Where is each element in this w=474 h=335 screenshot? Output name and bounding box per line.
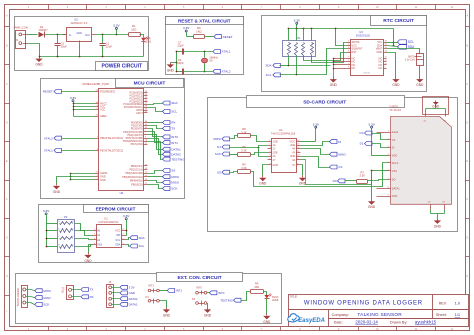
svg-text:4OE: 4OE [290,143,295,147]
svg-text:2020-02-14: 2020-02-14 [355,320,378,325]
svg-text:1KΩ: 1KΩ [196,29,202,33]
ground symbol power circuit [35,57,43,67]
net flag XTAL1 [213,50,231,54]
wire bootloader to flags [31,290,35,305]
capacitor C7 22pF [177,40,213,54]
wire mcu pin to SCL flag [148,108,163,112]
svg-text:Sheet:: Sheet: [436,313,447,317]
title block REV [439,300,461,305]
net flag SCK [163,186,179,190]
net flag MISO [163,180,180,184]
buffer chip U4 74LVC125APW [268,128,301,172]
svg-text:15Ω: 15Ω [254,285,259,289]
svg-text:SDA: SDA [139,236,145,240]
svg-text:SDA: SDA [171,101,178,105]
svg-text:1: 1 [72,245,73,247]
wire pullup3 to chip [304,53,347,61]
svg-text:Out: Out [85,33,90,37]
svg-text:1N4007: 1N4007 [38,28,48,32]
resistor R8 3.3K [230,127,251,138]
svg-text:VCC: VCC [100,108,106,112]
svg-text:SCL: SCL [139,244,145,248]
svg-text:INT1: INT1 [176,289,183,293]
svg-text:INT0: INT0 [218,291,225,295]
svg-text:VSS: VSS [97,242,102,246]
wire pullup4 to chip 32khz [312,43,347,63]
net flag MOSI ext [35,289,51,293]
ground symbol U4 left [259,176,267,186]
svg-text:TX: TX [90,288,94,292]
ground symbol U4 right [299,176,307,186]
wire left rail xtal caps [171,51,178,73]
svg-text:CS: CS [392,138,396,142]
resistor R6 1K [194,26,205,38]
wire CS to card pin2 [372,134,388,140]
svg-text:3.3K: 3.3K [241,148,247,152]
net flag MOSI [163,175,180,179]
svg-text:2A: 2A [273,154,276,158]
svg-text:4Y: 4Y [292,150,295,154]
wire R6 to RESET flag [205,36,214,38]
svg-text:DATA2: DATA2 [129,297,138,301]
wire card VSS junction to ground [371,170,388,199]
wire D1 to U2 In [45,34,67,36]
svg-text:CDN: CDN [392,194,398,198]
svg-text:GND: GND [434,224,442,228]
net flag RX [163,121,176,125]
capacitor C1 22uF [100,35,113,57]
wires network to U1 pins [75,224,93,247]
svg-text:ATMEGA328P_TQFP: ATMEGA328P_TQFP [82,82,109,86]
resistor R9 15ohm [251,282,264,294]
svg-text:H: H [6,275,8,278]
net flag RX ext [81,295,94,299]
svg-text:1OE: 1OE [273,139,278,143]
wire U4 4A to MISO flag [301,149,330,155]
diode D1 1N4007 [38,25,48,38]
svg-text:DO: DO [392,178,396,182]
capacitor C2 10uF [55,35,68,57]
svg-text:TF-15+15: TF-15+15 [389,108,401,112]
svg-text:VDD: VDD [392,154,398,158]
net flag TESTING [163,157,186,161]
svg-text:CAT24C02WI-G: CAT24C02WI-G [98,220,118,224]
title block Sheet [436,312,461,317]
svg-text:MOSI: MOSI [213,137,221,141]
wire SCL pin to SDA flag [126,238,130,240]
svg-text:SS: SS [217,170,221,174]
svg-text:2OE: 2OE [273,150,278,154]
svg-text:GND: GND [84,259,92,263]
ground symbol mcu [53,184,61,194]
svg-text:D: D [6,121,8,124]
svg-text:3.3V: 3.3V [294,18,301,22]
wire R8 to U4 1OE [251,136,268,142]
svg-text:GND: GND [416,83,424,87]
wire U4 3OE to CS flag [301,157,330,168]
svg-text:DATA1: DATA1 [171,147,181,151]
wire K3 to gnd [207,304,208,308]
svg-text:2Y: 2Y [273,158,276,162]
net flag INT0 [163,135,179,139]
wire GND pin 13 down [387,53,396,77]
svg-text:DS3231SO: DS3231SO [356,34,371,38]
rtc NC tie wires to gnd [333,58,347,77]
wire SDA pin to SCL flag [126,245,130,247]
svg-text:D1: D1 [360,142,364,146]
MCU section box [41,79,185,199]
net flag SDA eeprom [130,236,145,240]
svg-text:PB7(XTAL2/TOSC2): PB7(XTAL2/TOSC2) [100,148,123,152]
capacitor C6 22pF [177,58,213,75]
power flag 3.3V reset [183,26,190,36]
svg-text:ayushkh15: ayushkh15 [415,320,437,325]
svg-text:GND: GND [432,105,440,109]
ground symbol battery [416,77,424,87]
wire LED1 to ground rail [143,42,145,57]
net flag DI sd mid [330,140,342,144]
svg-text:U6: U6 [120,191,124,195]
svg-text:H: H [466,275,468,278]
svg-text:GND: GND [100,178,106,182]
wire LED8 to gnd [266,299,268,314]
RESET and XTAL section box [166,17,244,75]
svg-text:TX: TX [171,127,175,131]
wire SS resistor to bottom bus [251,163,388,187]
ground symbol card shield bottom [434,219,442,229]
wire X1 pin1 to D1 [28,34,38,36]
connector J1 BOOTLOADER [16,286,31,308]
power flag 3.3V eeprom right [123,214,130,236]
svg-text:P1: P1 [297,36,301,40]
wire mcu pin to RX flag [148,122,163,124]
svg-text:3.3K: 3.3K [241,166,247,170]
net flag SCK sd [215,145,251,156]
net flag XTAL2 [213,69,231,73]
svg-text:C: C [6,83,8,86]
svg-text:PB0(ICP1): PB0(ICP1) [131,164,143,168]
wire SCK resistor to U4 [251,153,268,155]
ground symbol xtal [167,63,175,73]
card top shield gnd box [423,97,449,115]
svg-text:3A: 3A [292,158,295,162]
wire mcu pin to SS flag [148,171,163,174]
svg-text:Drawn By:: Drawn By: [390,321,408,325]
title block frame [289,295,469,327]
power flag 3.3V card [368,122,387,155]
ground symbol K3 [204,308,212,318]
wire mcu pin to DATA2 flag [148,139,163,155]
svg-text:Company:: Company: [332,313,349,317]
wire card bottom shield to gnd [431,210,445,219]
EXT CON section box [16,273,282,324]
svg-text:SCK: SCK [215,152,221,156]
net flag TX [163,126,176,130]
net flag CS card [359,131,372,135]
svg-text:3Y: 3Y [292,163,295,167]
svg-text:1A: 1A [273,143,276,147]
rtc chip U3 DS3231SO [347,30,388,75]
svg-text:EXT. CON. CIRCUIT: EXT. CON. CIRCUIT [177,275,221,281]
wire bus U4 right to card VSS [301,160,372,185]
mcu chip U6 ATMEGA328P_TQFP [82,82,148,195]
wire DI to U4 [230,146,268,157]
wire mcu pin to TX flag [148,126,163,129]
svg-text:AMS1117-3.3: AMS1117-3.3 [71,21,88,25]
eeprom chip U1 CAT24C02WI-G [93,217,126,248]
ground symbol rtc left [330,77,338,87]
net flag DATA2 ext [120,297,138,301]
wire battery to gnd [419,66,421,77]
wire R7 to card DO pin [368,180,388,181]
svg-text:GND: GND [204,313,212,317]
net flag DATA2 [163,152,181,156]
resistor R1 15ohm [129,24,141,36]
wire U4 3Y to ground right [301,165,303,176]
svg-text:2: 2 [72,236,73,238]
svg-text:DATA2: DATA2 [171,152,181,156]
svg-text:TALKING SENSOR: TALKING SENSOR [357,312,402,318]
svg-text:VCC: VCC [290,139,296,143]
net flag SCL eeprom [130,244,145,248]
wire D1 to card pin3 [372,144,388,148]
push button K3 INT0 [192,286,207,306]
svg-text:3.3K: 3.3K [359,174,365,178]
svg-text:3.3K: 3.3K [241,130,247,134]
sd card connector CARD1 TF-15+15 [388,104,452,209]
net flag SDA rtc right [398,45,416,49]
wire K4 to INT1 flag [160,290,168,292]
wire mcu pin to DATA1 flag [148,135,163,150]
net flag SS sd [217,163,251,175]
svg-text:3: 3 [72,229,73,231]
net flag SS [163,169,176,173]
wire mcu pin to INT0 flag [148,129,163,137]
svg-text:D: D [466,121,468,124]
svg-text:GND: GND [129,291,135,295]
wire 3.3V to AVCC VCC pins [73,103,95,111]
svg-text:MISO: MISO [171,181,180,185]
svg-text:SDA: SDA [265,64,271,68]
svg-text:GND: GND [330,83,338,87]
wire XTAL2 to pin7 [62,138,95,140]
svg-text:PB6(XTAL1/TOSC1): PB6(XTAL1/TOSC1) [100,136,123,140]
net flag TESTING ext [220,298,241,302]
EEPROM section box [39,205,149,263]
svg-text:SCL: SCL [408,40,414,44]
wire mcu pin to INT1 flag [148,132,163,143]
svg-text:CS: CS [338,165,342,169]
wire mcu pin to MOSI flag [148,176,163,178]
regulator U2 AMS1117-3.3 [63,18,96,45]
svg-text:GND: GND [77,32,83,35]
net flag INT0 ext [209,291,224,295]
svg-text:MOSI: MOSI [43,289,51,293]
svg-text:G: G [6,237,8,240]
svg-text:RESET: RESET [223,35,233,39]
svg-text:AREF: AREF [100,114,107,118]
svg-text:EEPROM CIRCUIT: EEPROM CIRCUIT [96,206,136,211]
svg-text:74LVC125APW,118: 74LVC125APW,118 [271,132,296,136]
wire mcu pin to SCK flag [148,185,163,189]
svg-text:22pF: 22pF [177,61,184,65]
svg-text:GND: GND [259,182,267,186]
svg-text:X5: X5 [209,59,213,63]
svg-text:3.3V: 3.3V [313,122,320,126]
LED PWR LED1 [141,36,152,43]
svg-text:SCL: SCL [115,238,121,242]
power flag 3.3V eeprom left [43,209,50,224]
LED TEST LED8 [264,294,279,302]
svg-text:MCU CIRCUIT: MCU CIRCUIT [134,81,166,87]
svg-text:SS: SS [171,169,175,173]
svg-text:TESTING: TESTING [171,157,185,161]
wire 3.3V to R6 [187,36,194,38]
net flag 3.3V ext [120,285,135,289]
svg-text:DI: DI [338,140,341,144]
svg-text:Date:: Date: [334,321,343,325]
svg-text:DI: DI [392,146,395,150]
wire SCL to pullup [280,49,347,76]
wire U4 4OE to DI flag [301,142,330,146]
svg-text:3.3V: 3.3V [183,26,190,30]
net flag SCK ext [35,302,50,306]
net flag DI sd left [217,145,229,149]
svg-text:GND: GND [392,83,400,87]
svg-text:PC6(RESET): PC6(RESET) [100,90,115,94]
svg-text:PB5(SCK): PB5(SCK) [131,182,143,186]
svg-text:DATA1: DATA1 [129,303,138,307]
svg-text:SQW/INT: SQW/INT [352,47,363,51]
svg-text:SCL: SCL [266,73,272,77]
eeprom pullup rail wires [46,224,58,248]
svg-text:RESET: RESET [43,90,53,94]
card NC red stubs [377,133,388,197]
net flag RESET [214,35,233,39]
RTC section box [262,16,427,92]
svg-text:CS: CS [359,131,363,135]
svg-text:7: 7 [58,236,59,238]
wire AREF [74,116,95,118]
svg-text:INT1: INT1 [171,141,178,145]
wire U2 Out to R1 and LED [96,34,129,36]
svg-text:RTC CIRCUIT: RTC CIRCUIT [383,18,414,24]
svg-text:VBAT: VBAT [376,47,383,51]
battery BAT1 3.3v Cell [405,54,424,66]
svg-text:8: 8 [58,245,59,247]
svg-text:G: G [466,237,468,240]
ground symbol K4 [163,308,171,318]
wire U2 GND pin to rail [79,45,81,57]
wire SCL pin to flag [387,42,398,44]
EasyEDA logo [288,314,325,324]
ground symbol rtc chip [392,77,400,87]
svg-text:LED1: LED1 [145,39,152,43]
net flag TX ext [81,288,93,292]
net flag SCL rtc right [398,40,415,44]
svg-text:REV:: REV: [439,301,447,305]
net flag D1 card [360,142,372,146]
svg-text:IO: IO [61,290,64,294]
svg-text:ADC7: ADC7 [136,111,143,115]
svg-text:MOSI: MOSI [171,175,179,179]
svg-text:GND: GND [163,313,171,317]
svg-text:RESET & XTAL CIRCUIT: RESET & XTAL CIRCUIT [178,18,231,23]
wire R9 to LED8 [264,292,267,296]
svg-text:22pF: 22pF [177,44,184,48]
svg-text:SD-CARD CIRCUIT: SD-CARD CIRCUIT [303,100,346,106]
svg-text:DS3231: DS3231 [363,73,371,75]
wire R1 to LED1 [140,35,144,38]
svg-text:PB4(MISO): PB4(MISO) [130,179,143,183]
net flag XTAL2 mcu [44,136,62,140]
wire U4 GND pin to ground [263,165,268,176]
svg-text:NC: NC [379,66,383,70]
svg-text:SCK: SCK [43,303,49,307]
svg-text:data2: data2 [392,130,399,134]
svg-text:GND: GND [53,190,61,194]
svg-text:PWR_CON: PWR_CON [14,25,28,29]
wire mcu pin to MISO flag [148,181,163,183]
svg-text:MISO: MISO [43,296,51,300]
svg-text:C: C [466,83,468,86]
svg-text:DATA1: DATA1 [392,186,400,190]
svg-text:3.3V: 3.3V [129,286,135,290]
wire TESTING to R9 [241,292,251,301]
svg-text:SCK: SCK [171,187,178,191]
svg-text:RX: RX [90,295,94,299]
svg-text:GND: GND [35,62,43,66]
svg-text:4: 4 [72,221,73,223]
svg-text:BOOTLOADER: BOOTLOADER [16,288,20,306]
svg-text:LED8: LED8 [272,298,279,302]
net flag RESET mcu [43,90,62,94]
svg-text:3.3V: 3.3V [113,24,120,28]
power flag 3.3V (power rail) [113,24,120,35]
svg-text:6: 6 [58,229,59,231]
svg-text:3.3V: 3.3V [368,122,375,126]
svg-text:NC: NC [352,66,356,70]
connector T1 IO [61,286,80,300]
svg-text:WP: WP [116,233,120,237]
wire SDA pin to flag [387,46,398,47]
svg-text:GND: GND [377,50,383,54]
resistor network P2 [58,215,75,253]
resistor R7 3.3K [357,170,368,183]
wire mcu pin to TESTING flag [148,142,163,160]
svg-text:PB2(SS/OC1B): PB2(SS/OC1B) [125,171,143,175]
wire mcu pin to SDA flag [148,104,163,105]
net flag MISO sd [330,152,347,156]
svg-text:T1: T1 [61,286,65,290]
ground symbol eeprom [84,253,92,263]
svg-text:1Y: 1Y [273,147,276,151]
svg-text:XTAL1: XTAL1 [44,149,53,153]
net flag SCL rtc left [266,73,281,77]
crystal X5 16MHz [202,51,219,73]
push button K4 INT1 [145,283,159,303]
svg-text:RST: RST [352,50,358,54]
svg-text:1.0: 1.0 [455,300,461,305]
net flag SDA rtc left [265,63,280,67]
net flag D0 sd [333,179,345,183]
wire RESET to pin29 [62,91,95,93]
net flag CS sd mid [330,165,343,169]
wire K4 to gnd [160,301,167,308]
svg-text:D0: D0 [333,179,337,183]
wire VSS to gnd [89,245,93,253]
svg-text:CARD1: CARD1 [389,104,399,108]
